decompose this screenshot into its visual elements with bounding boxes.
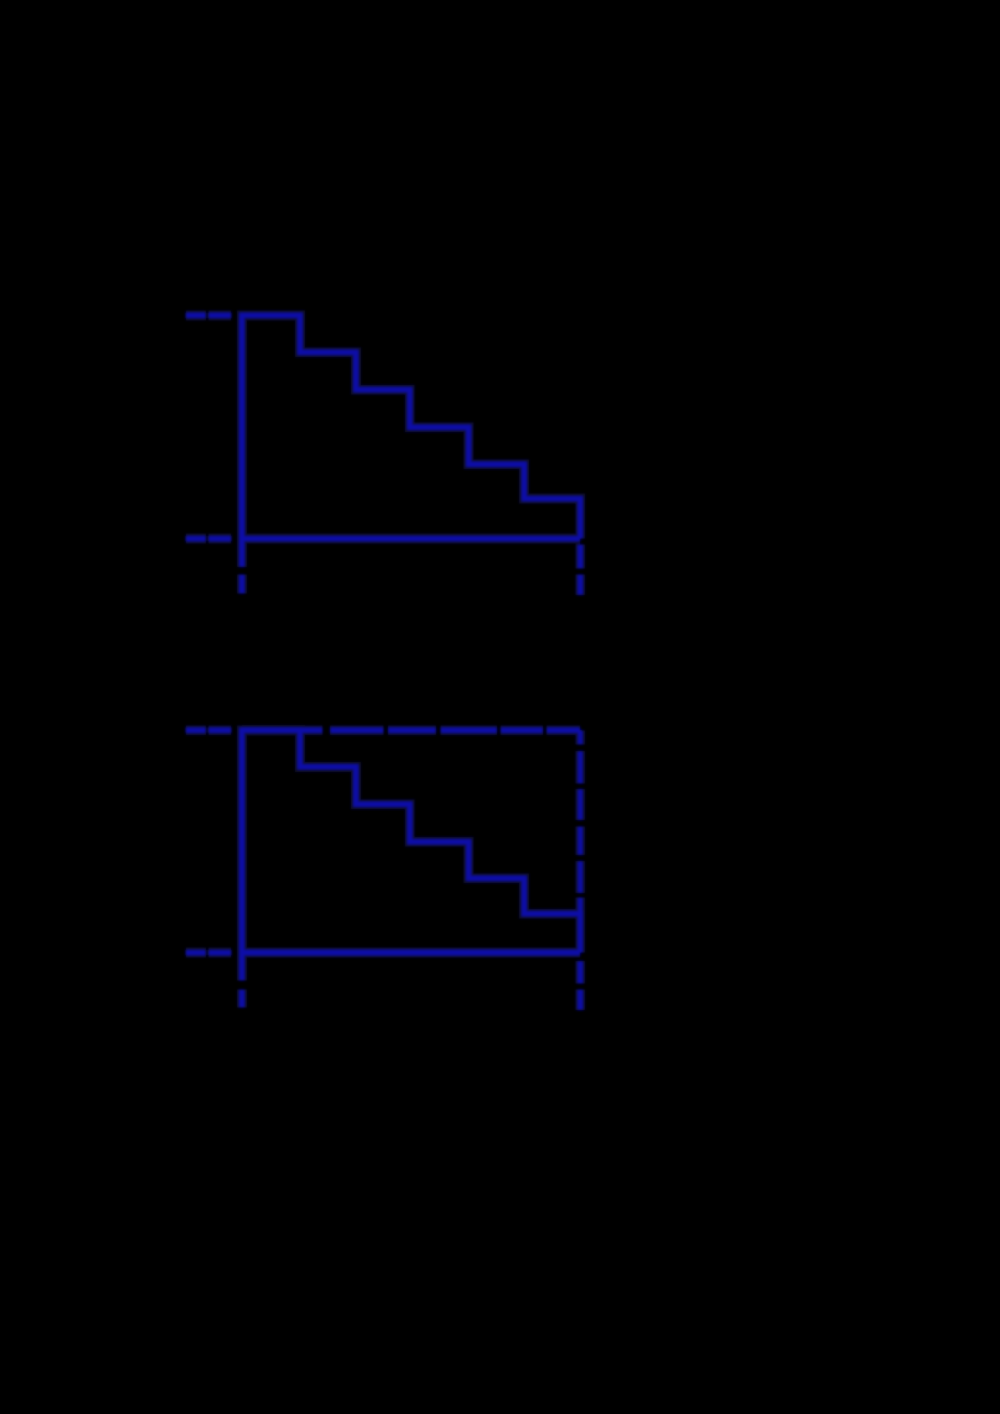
fig2 dashed level marker baseline-left bbox=[186, 950, 232, 955]
halo layer figure 1 bbox=[186, 315, 581, 595]
fig2 dashed level marker top-left bbox=[186, 728, 232, 733]
fig2 dashed top edge of rectangle bbox=[242, 728, 580, 733]
fig1 dashed drop below baseline right bbox=[578, 545, 583, 596]
fig1 staircase curve with left edge bbox=[242, 315, 580, 567]
fig2 dashed drop below baseline right bbox=[578, 961, 583, 1010]
fig2 dashed drop below baseline left bbox=[239, 990, 244, 1008]
fig1 dashed level marker top-left bbox=[186, 313, 232, 318]
fig2 staircase curve with left edge bbox=[242, 730, 580, 980]
fig1 baseline bbox=[242, 536, 580, 541]
fig2 baseline bbox=[242, 950, 580, 955]
fig1 dashed level marker baseline-left bbox=[186, 536, 232, 541]
halo layer figure 2 bbox=[186, 730, 581, 1010]
fig2 dashed right edge of rectangle bbox=[578, 730, 582, 914]
fig1 dashed drop below baseline left bbox=[239, 575, 244, 594]
